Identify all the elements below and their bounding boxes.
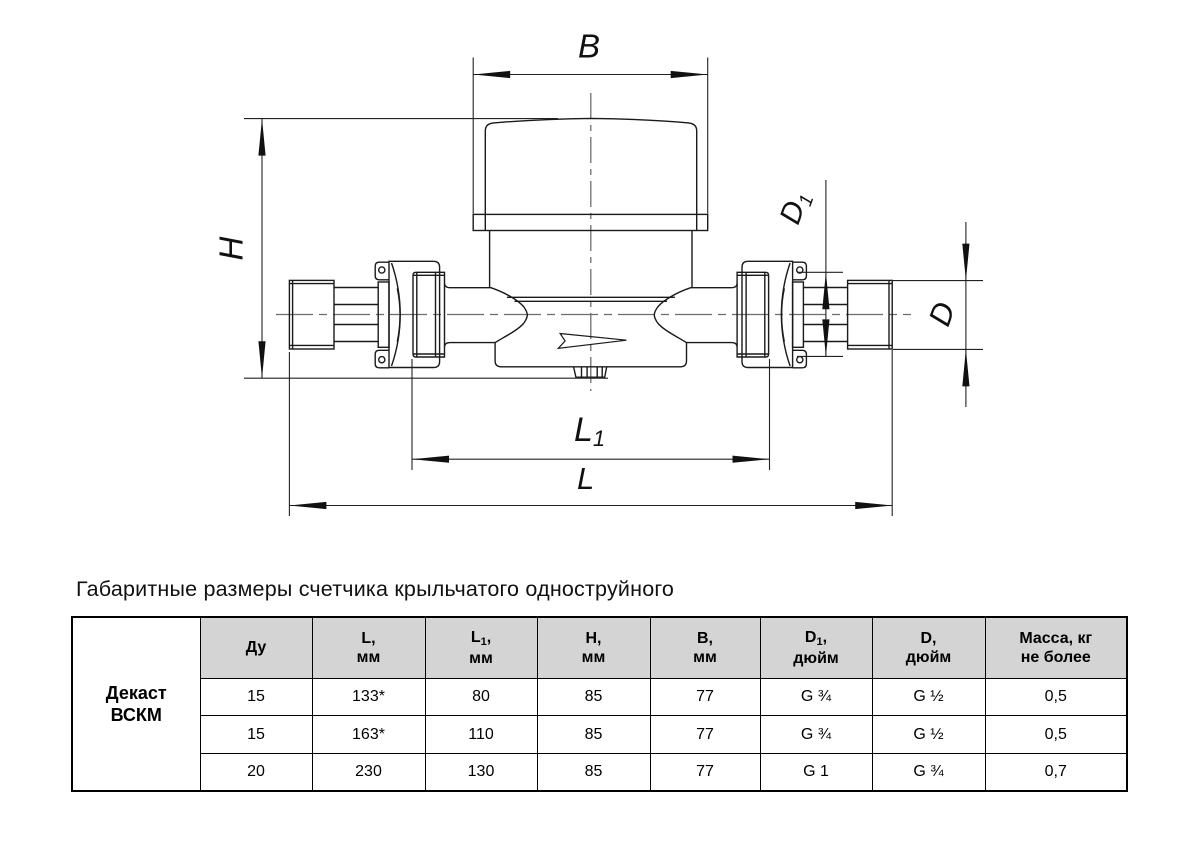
right collar <box>737 272 769 357</box>
dimension D1 <box>774 180 843 357</box>
svg-text:D: D <box>922 297 963 330</box>
left collar <box>413 272 445 357</box>
flow arrow <box>558 334 626 349</box>
svg-text:L: L <box>577 461 594 496</box>
left union nut <box>389 261 440 367</box>
svg-text:D1: D1 <box>774 187 819 230</box>
right nipple <box>848 280 893 349</box>
dimension L1 <box>412 359 770 470</box>
dimensions table <box>71 616 1128 792</box>
centerline vertical <box>590 93 592 391</box>
right thread rod <box>803 287 847 289</box>
left nut ear top <box>375 262 389 280</box>
dimension B <box>473 28 708 214</box>
neck bottom right <box>687 342 732 344</box>
left nut flange <box>378 282 389 347</box>
right nut flange <box>793 282 804 347</box>
svg-text:L1: L1 <box>574 411 605 451</box>
right nut ear top <box>793 262 807 280</box>
svg-text:H: H <box>213 237 250 261</box>
dimension D <box>893 222 983 407</box>
body outline <box>450 288 732 367</box>
meter cap <box>485 118 696 230</box>
left nut ear bottom <box>375 350 389 368</box>
shoulder lines <box>507 296 675 298</box>
left nipple <box>289 280 334 349</box>
neck fillets <box>445 284 738 347</box>
svg-text:B: B <box>578 28 600 65</box>
dimension L <box>289 350 892 516</box>
right nut ear bottom <box>793 350 807 368</box>
drain boss <box>574 367 607 377</box>
left thread rod <box>334 287 378 289</box>
right union nut <box>742 261 793 367</box>
register housing <box>489 231 491 288</box>
bezel ring <box>473 214 708 230</box>
dimension H <box>213 119 609 379</box>
table caption <box>76 577 674 602</box>
centerline horizontal <box>276 314 911 316</box>
neck bottom left <box>450 342 495 344</box>
